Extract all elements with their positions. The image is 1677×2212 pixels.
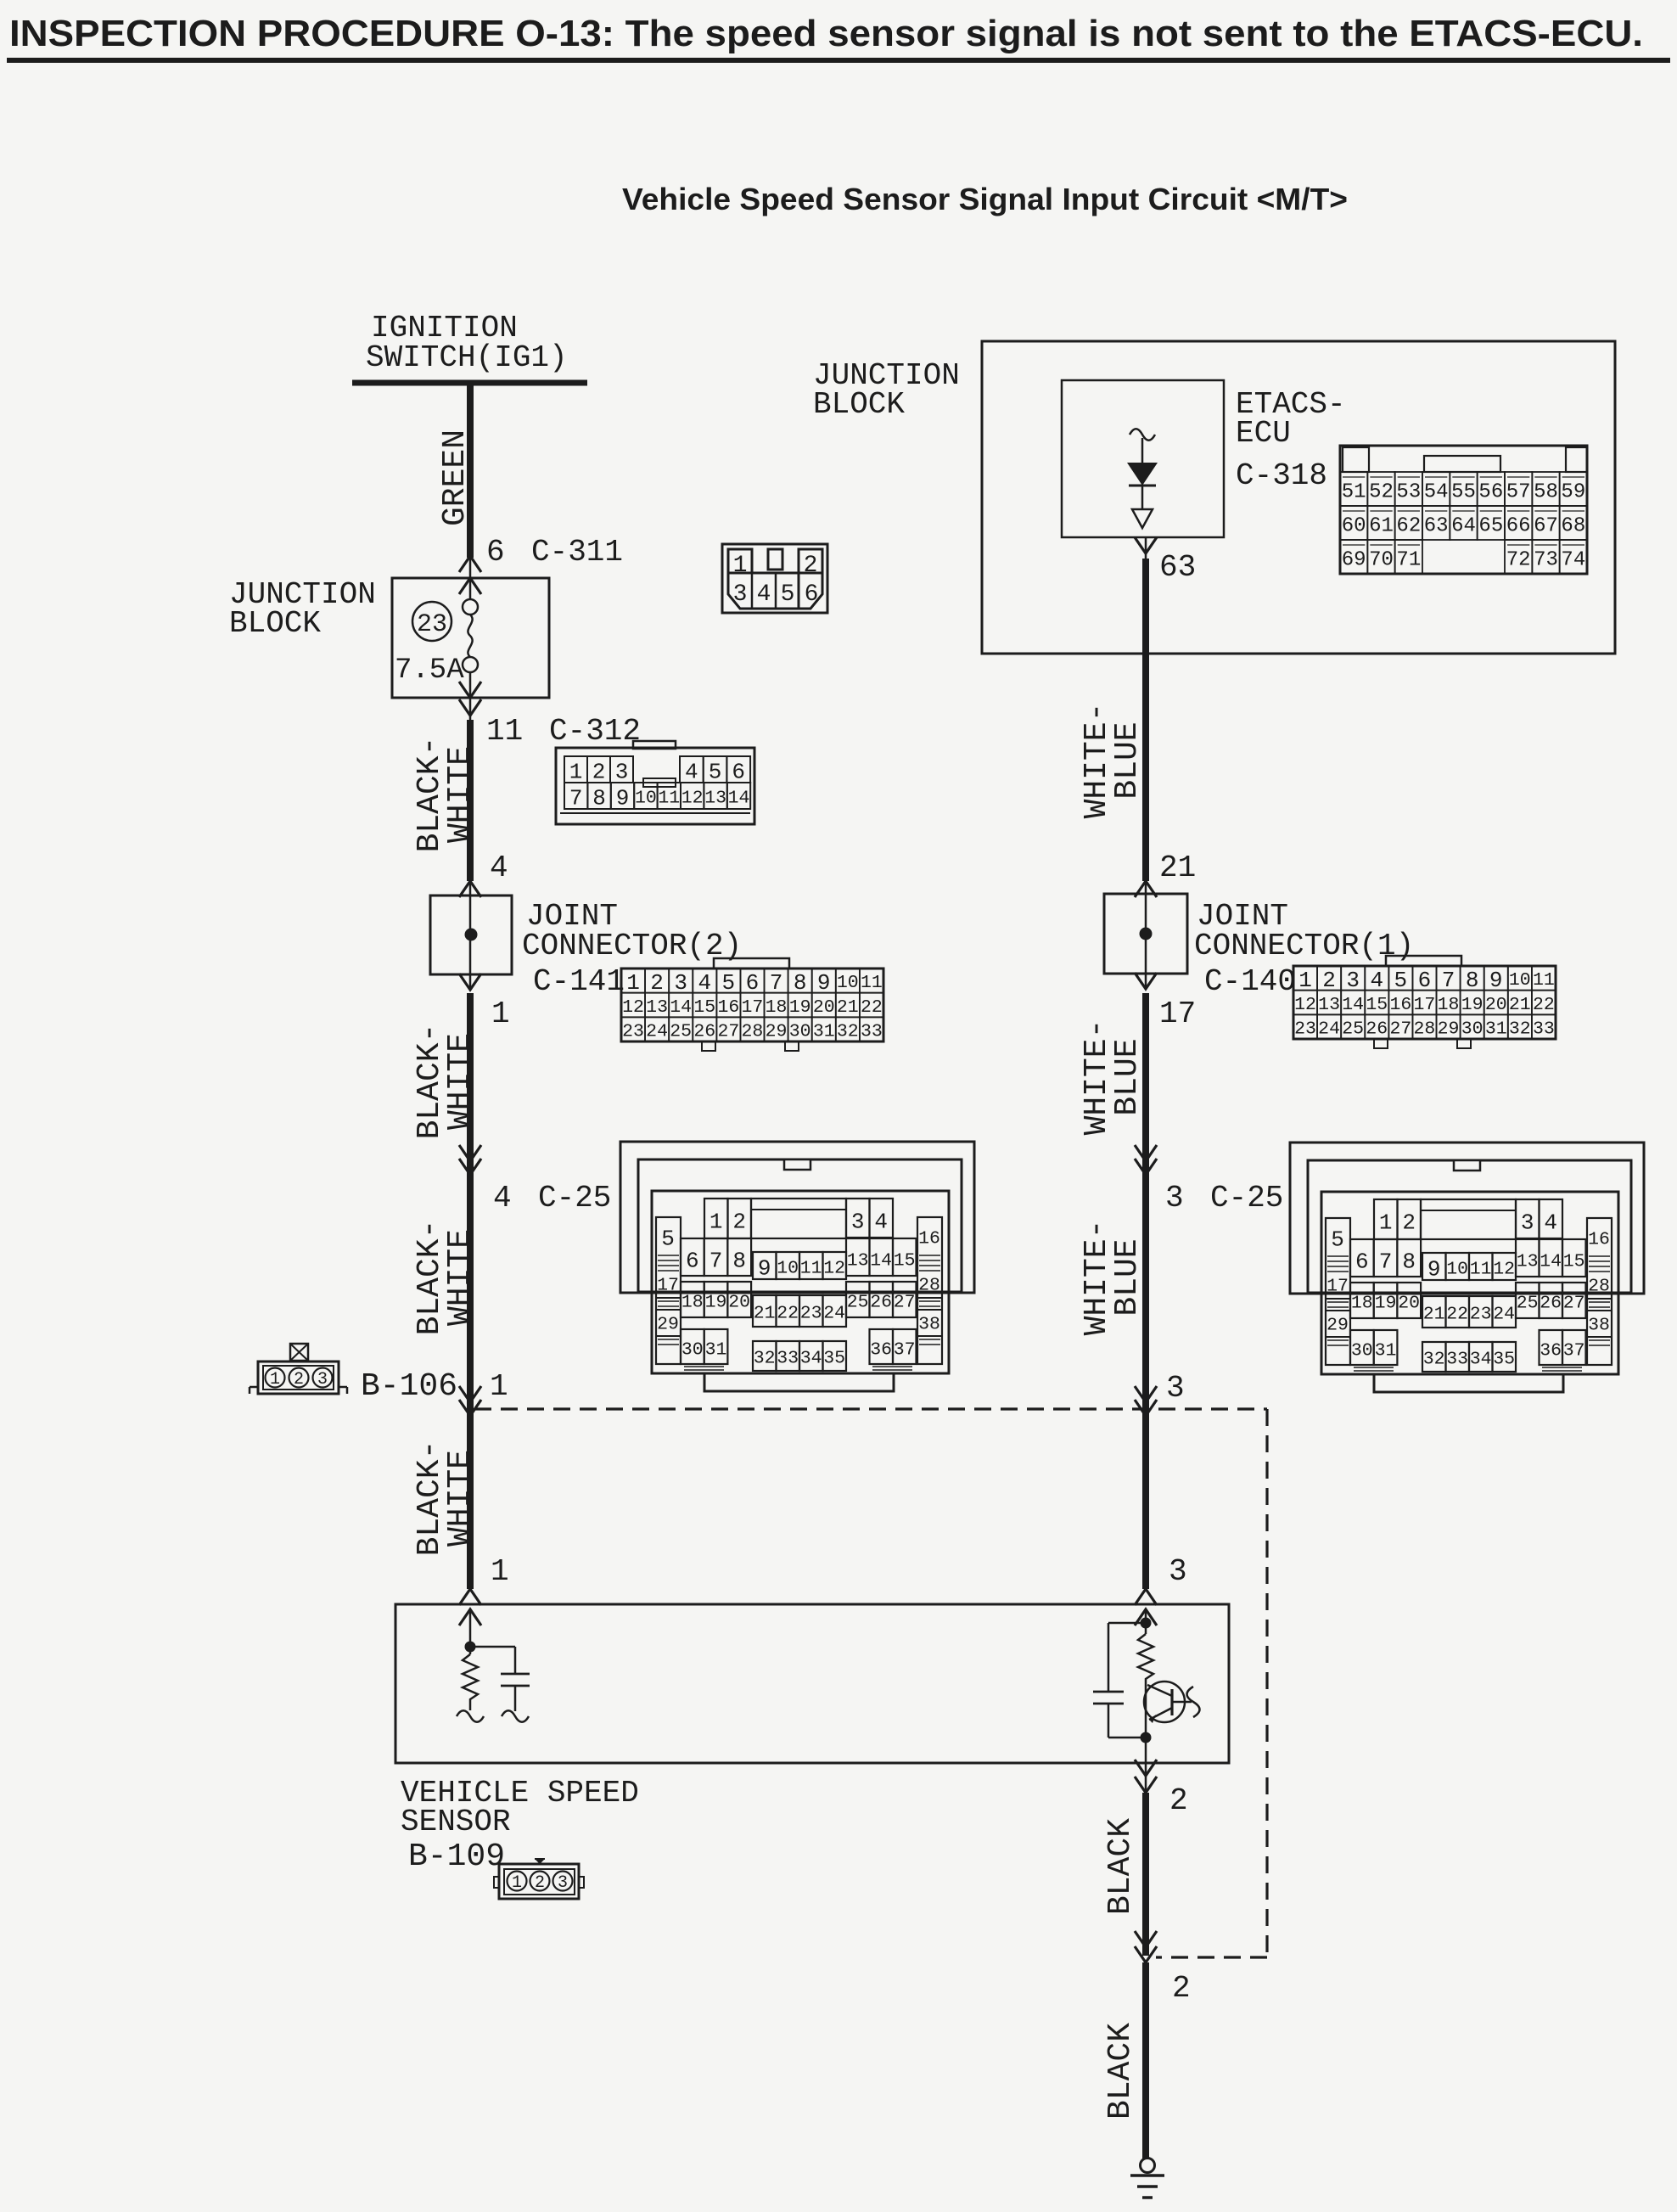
svg-text:21: 21: [837, 997, 859, 1018]
svg-text:10: 10: [837, 973, 859, 993]
svg-text:26: 26: [693, 1022, 715, 1042]
svg-text:B-106: B-106: [361, 1368, 457, 1405]
svg-text:63: 63: [1159, 550, 1196, 585]
svg-text:25: 25: [670, 1022, 692, 1042]
svg-text:22: 22: [777, 1304, 799, 1324]
svg-text:19: 19: [705, 1293, 727, 1313]
svg-text:33: 33: [777, 1349, 799, 1369]
svg-text:2: 2: [1172, 1971, 1191, 2006]
svg-text:27: 27: [717, 1022, 739, 1042]
svg-text:57: 57: [1506, 481, 1531, 504]
svg-text:3: 3: [558, 1873, 568, 1893]
svg-text:C-140: C-140: [1204, 964, 1296, 999]
svg-text:55: 55: [1451, 481, 1476, 504]
svg-text:14: 14: [1342, 995, 1364, 1015]
svg-text:C-25: C-25: [1210, 1181, 1283, 1215]
svg-text:19: 19: [1461, 995, 1483, 1015]
shield crossing chevrons left: [459, 1386, 481, 1402]
svg-text:7: 7: [1442, 968, 1455, 993]
sensor capacitor left: [470, 1646, 515, 1648]
svg-text:4: 4: [490, 851, 508, 885]
svg-text:33: 33: [1533, 1019, 1555, 1040]
joint connector(2) pin 1 chevron: [459, 974, 481, 990]
svg-text:74: 74: [1561, 549, 1585, 572]
header underline: [7, 58, 1670, 63]
wire BLACK segment 2: [1142, 1962, 1149, 2159]
svg-text:67: 67: [1534, 515, 1558, 538]
junction block box right: [982, 341, 1615, 654]
svg-text:BLUE: BLUE: [1109, 1238, 1146, 1316]
svg-text:6: 6: [686, 1248, 699, 1273]
svg-text:3: 3: [851, 1209, 865, 1234]
svg-text:WHITE: WHITE: [442, 746, 479, 843]
svg-text:37: 37: [894, 1340, 916, 1361]
svg-text:2: 2: [592, 759, 606, 784]
svg-text:4: 4: [1370, 968, 1383, 993]
svg-text:63: 63: [1424, 515, 1449, 538]
svg-text:5: 5: [722, 970, 736, 996]
sensor pull-up resistor left: [463, 1654, 478, 1710]
svg-text:ECU: ECU: [1236, 416, 1291, 451]
svg-text:71: 71: [1396, 549, 1421, 572]
svg-text:1: 1: [709, 1209, 723, 1234]
svg-text:32: 32: [754, 1349, 776, 1369]
junction block box: [392, 578, 549, 698]
svg-text:14: 14: [870, 1251, 892, 1272]
svg-text:6: 6: [746, 970, 760, 996]
svg-text:25: 25: [847, 1293, 869, 1313]
svg-text:21: 21: [754, 1304, 776, 1324]
sensor resistor ground squiggle: [457, 1710, 484, 1722]
wire BLACK-WHITE segment 1: [467, 720, 474, 881]
connector C-311 pin face: [722, 544, 827, 613]
svg-text:58: 58: [1534, 481, 1558, 504]
svg-text:11: 11: [861, 973, 883, 993]
svg-text:WHITE: WHITE: [442, 1229, 479, 1326]
connector C-25 pin face right: [1290, 1142, 1644, 1392]
joint connector(2) box: [430, 895, 512, 974]
svg-text:52: 52: [1369, 481, 1394, 504]
svg-text:62: 62: [1396, 515, 1421, 538]
svg-text:6: 6: [1418, 968, 1432, 993]
svg-text:56: 56: [1478, 481, 1503, 504]
svg-text:2: 2: [732, 1209, 746, 1234]
svg-text:14: 14: [670, 997, 692, 1018]
svg-text:5: 5: [661, 1226, 675, 1251]
svg-text:C-312: C-312: [549, 714, 641, 749]
connector C-141 pin face: [621, 958, 883, 1051]
svg-text:BLACK: BLACK: [1102, 2023, 1139, 2119]
svg-text:13: 13: [704, 789, 726, 809]
intermediate connector chevrons C-25 side left: [459, 1145, 481, 1161]
svg-text:13: 13: [646, 997, 668, 1018]
svg-text:BLUE: BLUE: [1109, 721, 1146, 799]
svg-text:23: 23: [800, 1304, 822, 1324]
svg-text:51: 51: [1342, 481, 1366, 504]
svg-text:30: 30: [789, 1022, 811, 1042]
svg-text:3: 3: [317, 1370, 328, 1390]
svg-text:11: 11: [1533, 970, 1555, 991]
svg-text:WHITE: WHITE: [442, 1450, 479, 1547]
svg-text:5: 5: [1394, 968, 1408, 993]
svg-text:1: 1: [491, 1554, 509, 1589]
svg-text:68: 68: [1561, 515, 1585, 538]
svg-text:8: 8: [794, 970, 807, 996]
svg-text:26: 26: [1366, 1019, 1388, 1040]
svg-text:CONNECTOR(2): CONNECTOR(2): [522, 929, 742, 963]
svg-text:8: 8: [592, 785, 606, 811]
connector C-311 pin 6 chevrons: [469, 556, 472, 578]
svg-text:66: 66: [1506, 515, 1531, 538]
sensor internal wire right: [1145, 1609, 1147, 1634]
sensor junction dot left: [465, 1642, 476, 1653]
svg-text:23: 23: [417, 610, 447, 639]
svg-text:9: 9: [616, 785, 630, 811]
svg-text:3: 3: [733, 581, 748, 608]
svg-text:26: 26: [870, 1293, 892, 1313]
svg-text:21: 21: [1159, 851, 1196, 885]
wire WHITE-BLUE from ETACS: [1142, 559, 1149, 881]
svg-text:64: 64: [1451, 515, 1476, 538]
svg-text:24: 24: [823, 1304, 845, 1324]
svg-text:18: 18: [766, 997, 788, 1018]
connector C-25 pin face left: [620, 1142, 974, 1391]
svg-text:C-311: C-311: [531, 535, 623, 570]
wire GREEN from ignition switch: [467, 383, 474, 558]
svg-text:3: 3: [1166, 1371, 1185, 1406]
ground symbol: [1141, 2159, 1155, 2173]
svg-text:2: 2: [1169, 1783, 1188, 1818]
svg-text:7.5A: 7.5A: [395, 654, 464, 687]
svg-text:GREEN: GREEN: [437, 429, 474, 526]
svg-text:22: 22: [861, 997, 883, 1018]
svg-text:3: 3: [615, 759, 629, 784]
wire BLACK segment 1: [1142, 1793, 1149, 1956]
svg-text:4: 4: [698, 970, 711, 996]
svg-text:6: 6: [805, 581, 819, 608]
svg-text:2: 2: [535, 1873, 545, 1893]
svg-text:1: 1: [270, 1370, 280, 1390]
svg-text:16: 16: [717, 997, 739, 1018]
svg-text:1: 1: [569, 759, 583, 784]
joint connector(1) box: [1104, 894, 1187, 974]
svg-text:36: 36: [870, 1340, 892, 1361]
svg-text:14: 14: [728, 789, 750, 809]
svg-text:C-25: C-25: [538, 1181, 611, 1215]
svg-text:13: 13: [847, 1251, 869, 1272]
connector C-140 pin face: [1293, 956, 1556, 1048]
svg-text:29: 29: [766, 1022, 788, 1042]
svg-text:SENSOR: SENSOR: [401, 1805, 511, 1839]
svg-text:INSPECTION PROCEDURE O-13: The: INSPECTION PROCEDURE O-13: The speed sen…: [9, 13, 1643, 54]
svg-text:30: 30: [1461, 1019, 1483, 1040]
svg-text:WHITE: WHITE: [442, 1033, 479, 1130]
svg-text:24: 24: [1318, 1019, 1340, 1040]
svg-text:27: 27: [894, 1293, 916, 1313]
svg-text:32: 32: [1509, 1019, 1531, 1040]
svg-text:C-318: C-318: [1236, 458, 1327, 493]
svg-text:11: 11: [486, 714, 523, 749]
svg-text:54: 54: [1424, 481, 1449, 504]
svg-text:4: 4: [757, 581, 771, 608]
svg-text:15: 15: [894, 1251, 916, 1272]
svg-text:CONNECTOR(1): CONNECTOR(1): [1194, 929, 1414, 963]
svg-text:4: 4: [874, 1209, 888, 1234]
vehicle speed sensor pin 1 chevrons: [459, 1589, 481, 1605]
svg-text:15: 15: [1366, 995, 1388, 1015]
svg-text:18: 18: [681, 1293, 704, 1313]
joint connector(2) junction dot: [465, 929, 478, 941]
ignition switch bus bar: [352, 380, 587, 386]
svg-text:23: 23: [1294, 1019, 1316, 1040]
svg-text:29: 29: [1438, 1019, 1460, 1040]
vehicle speed sensor pin 3 chevrons: [1135, 1589, 1157, 1605]
sensor internal wire left: [469, 1609, 472, 1654]
vehicle speed sensor box: [395, 1604, 1229, 1763]
svg-text:29: 29: [657, 1315, 679, 1335]
svg-text:3: 3: [1165, 1181, 1184, 1215]
svg-text:35: 35: [823, 1349, 845, 1369]
svg-text:16: 16: [918, 1229, 940, 1249]
svg-text:12: 12: [823, 1259, 845, 1279]
svg-text:31: 31: [1485, 1019, 1507, 1040]
svg-text:60: 60: [1342, 515, 1366, 538]
svg-text:3: 3: [674, 970, 687, 996]
svg-text:38: 38: [918, 1315, 940, 1335]
sensor output transistor: [1144, 1681, 1185, 1722]
svg-text:33: 33: [861, 1022, 883, 1042]
shield dashed line horizontal: [474, 1407, 1267, 1410]
wire BLACK-WHITE segment 2: [467, 993, 474, 1589]
svg-text:BLOCK: BLOCK: [813, 387, 905, 422]
svg-text:72: 72: [1506, 549, 1531, 572]
svg-text:59: 59: [1561, 481, 1585, 504]
svg-text:24: 24: [646, 1022, 668, 1042]
svg-text:11: 11: [658, 789, 680, 809]
svg-text:10: 10: [1509, 970, 1531, 991]
svg-text:25: 25: [1342, 1019, 1364, 1040]
connector C-312 pin 11 chevrons: [459, 682, 481, 698]
svg-text:20: 20: [728, 1293, 750, 1313]
svg-text:C-141: C-141: [533, 964, 625, 999]
sensor pin 2 chevrons: [1135, 1760, 1157, 1776]
svg-text:30: 30: [681, 1340, 704, 1361]
svg-text:10: 10: [777, 1259, 799, 1279]
connector C-312 pin face: [556, 741, 754, 824]
svg-text:Vehicle Speed Sensor Signal In: Vehicle Speed Sensor Signal Input Circui…: [622, 182, 1348, 216]
svg-text:5: 5: [709, 759, 722, 784]
connector B-106 face: [250, 1344, 347, 1394]
svg-text:53: 53: [1396, 481, 1421, 504]
svg-text:65: 65: [1478, 515, 1503, 538]
svg-text:7: 7: [569, 785, 583, 811]
svg-text:27: 27: [1389, 1019, 1411, 1040]
wire WHITE-BLUE segment 2: [1142, 993, 1149, 1589]
connector B-109 face: [494, 1859, 584, 1899]
svg-text:8: 8: [732, 1248, 746, 1273]
svg-text:23: 23: [622, 1022, 644, 1042]
svg-text:5: 5: [781, 581, 795, 608]
svg-text:1: 1: [490, 1369, 508, 1404]
svg-text:7: 7: [770, 970, 783, 996]
sensor junction dot right bottom: [1141, 1732, 1152, 1743]
svg-text:8: 8: [1466, 968, 1479, 993]
svg-text:4: 4: [493, 1181, 512, 1215]
svg-text:28: 28: [742, 1022, 764, 1042]
splice chevrons at shield join: [1135, 1931, 1157, 1947]
intermediate connector chevrons C-25 side right: [1135, 1145, 1157, 1161]
shield crossing chevrons right: [1135, 1386, 1157, 1402]
connector C-318 pin face: [1340, 446, 1587, 574]
svg-text:6: 6: [732, 759, 745, 784]
svg-text:10: 10: [635, 789, 657, 809]
svg-text:31: 31: [813, 1022, 835, 1042]
svg-text:12: 12: [1294, 995, 1316, 1015]
svg-text:70: 70: [1369, 549, 1394, 572]
svg-text:61: 61: [1369, 515, 1394, 538]
svg-text:34: 34: [800, 1349, 822, 1369]
svg-text:9: 9: [1489, 968, 1503, 993]
fuse element F23 7.5A: [469, 578, 472, 598]
svg-text:1: 1: [733, 553, 748, 579]
svg-text:17: 17: [1414, 995, 1436, 1015]
svg-text:B-109: B-109: [408, 1839, 505, 1875]
svg-text:15: 15: [693, 997, 715, 1018]
svg-text:22: 22: [1533, 995, 1555, 1015]
svg-text:SWITCH(IG1): SWITCH(IG1): [366, 340, 568, 375]
svg-text:17: 17: [1159, 997, 1196, 1031]
svg-text:2: 2: [804, 553, 818, 579]
shield dashed line bottom: [1156, 1956, 1267, 1958]
svg-text:20: 20: [813, 997, 835, 1018]
svg-text:2: 2: [650, 970, 664, 996]
sensor resistor right: [1138, 1634, 1153, 1738]
shield dashed line vertical: [1265, 1409, 1268, 1957]
svg-text:20: 20: [1485, 995, 1507, 1015]
svg-text:1: 1: [512, 1873, 522, 1893]
joint connector(2) pin 4 chevron: [459, 881, 481, 897]
svg-text:13: 13: [1318, 995, 1340, 1015]
svg-text:2: 2: [294, 1370, 304, 1390]
svg-text:3: 3: [1169, 1554, 1187, 1589]
ETACS pin 63 chevron: [1135, 537, 1157, 553]
svg-text:7: 7: [709, 1248, 723, 1273]
svg-text:2: 2: [1322, 968, 1336, 993]
svg-text:1: 1: [491, 997, 510, 1031]
sensor junction dot right top: [1141, 1618, 1152, 1629]
svg-text:3: 3: [1346, 968, 1360, 993]
svg-text:12: 12: [622, 997, 644, 1018]
svg-text:1: 1: [626, 970, 640, 996]
svg-text:73: 73: [1534, 549, 1558, 572]
joint connector(1) pin 17 chevron: [1135, 973, 1157, 989]
svg-text:9: 9: [758, 1255, 771, 1281]
diode in junction block: [1130, 429, 1155, 441]
svg-text:BLUE: BLUE: [1109, 1038, 1146, 1115]
fuse 23 circle label: [412, 602, 451, 641]
svg-text:BLACK: BLACK: [1102, 1818, 1139, 1915]
sensor capacitor right bracket: [1108, 1622, 1146, 1625]
svg-text:9: 9: [817, 970, 831, 996]
svg-text:BLOCK: BLOCK: [229, 606, 321, 641]
svg-text:31: 31: [705, 1340, 727, 1361]
svg-text:11: 11: [800, 1259, 822, 1279]
svg-text:28: 28: [918, 1276, 940, 1296]
joint connector(1) pin 21 chevron: [1135, 881, 1157, 897]
svg-text:21: 21: [1509, 995, 1531, 1015]
joint connector(1) junction dot: [1140, 928, 1153, 940]
svg-text:28: 28: [1414, 1019, 1436, 1040]
svg-text:12: 12: [681, 789, 704, 809]
svg-text:6: 6: [486, 535, 505, 570]
svg-text:4: 4: [685, 759, 698, 784]
svg-text:69: 69: [1342, 549, 1366, 572]
svg-text:1: 1: [1298, 968, 1312, 993]
svg-text:19: 19: [789, 997, 811, 1018]
svg-text:17: 17: [742, 997, 764, 1018]
svg-text:16: 16: [1389, 995, 1411, 1015]
svg-text:18: 18: [1438, 995, 1460, 1015]
svg-text:17: 17: [657, 1276, 679, 1296]
svg-text:32: 32: [837, 1022, 859, 1042]
ETACS inner box: [1062, 380, 1224, 537]
